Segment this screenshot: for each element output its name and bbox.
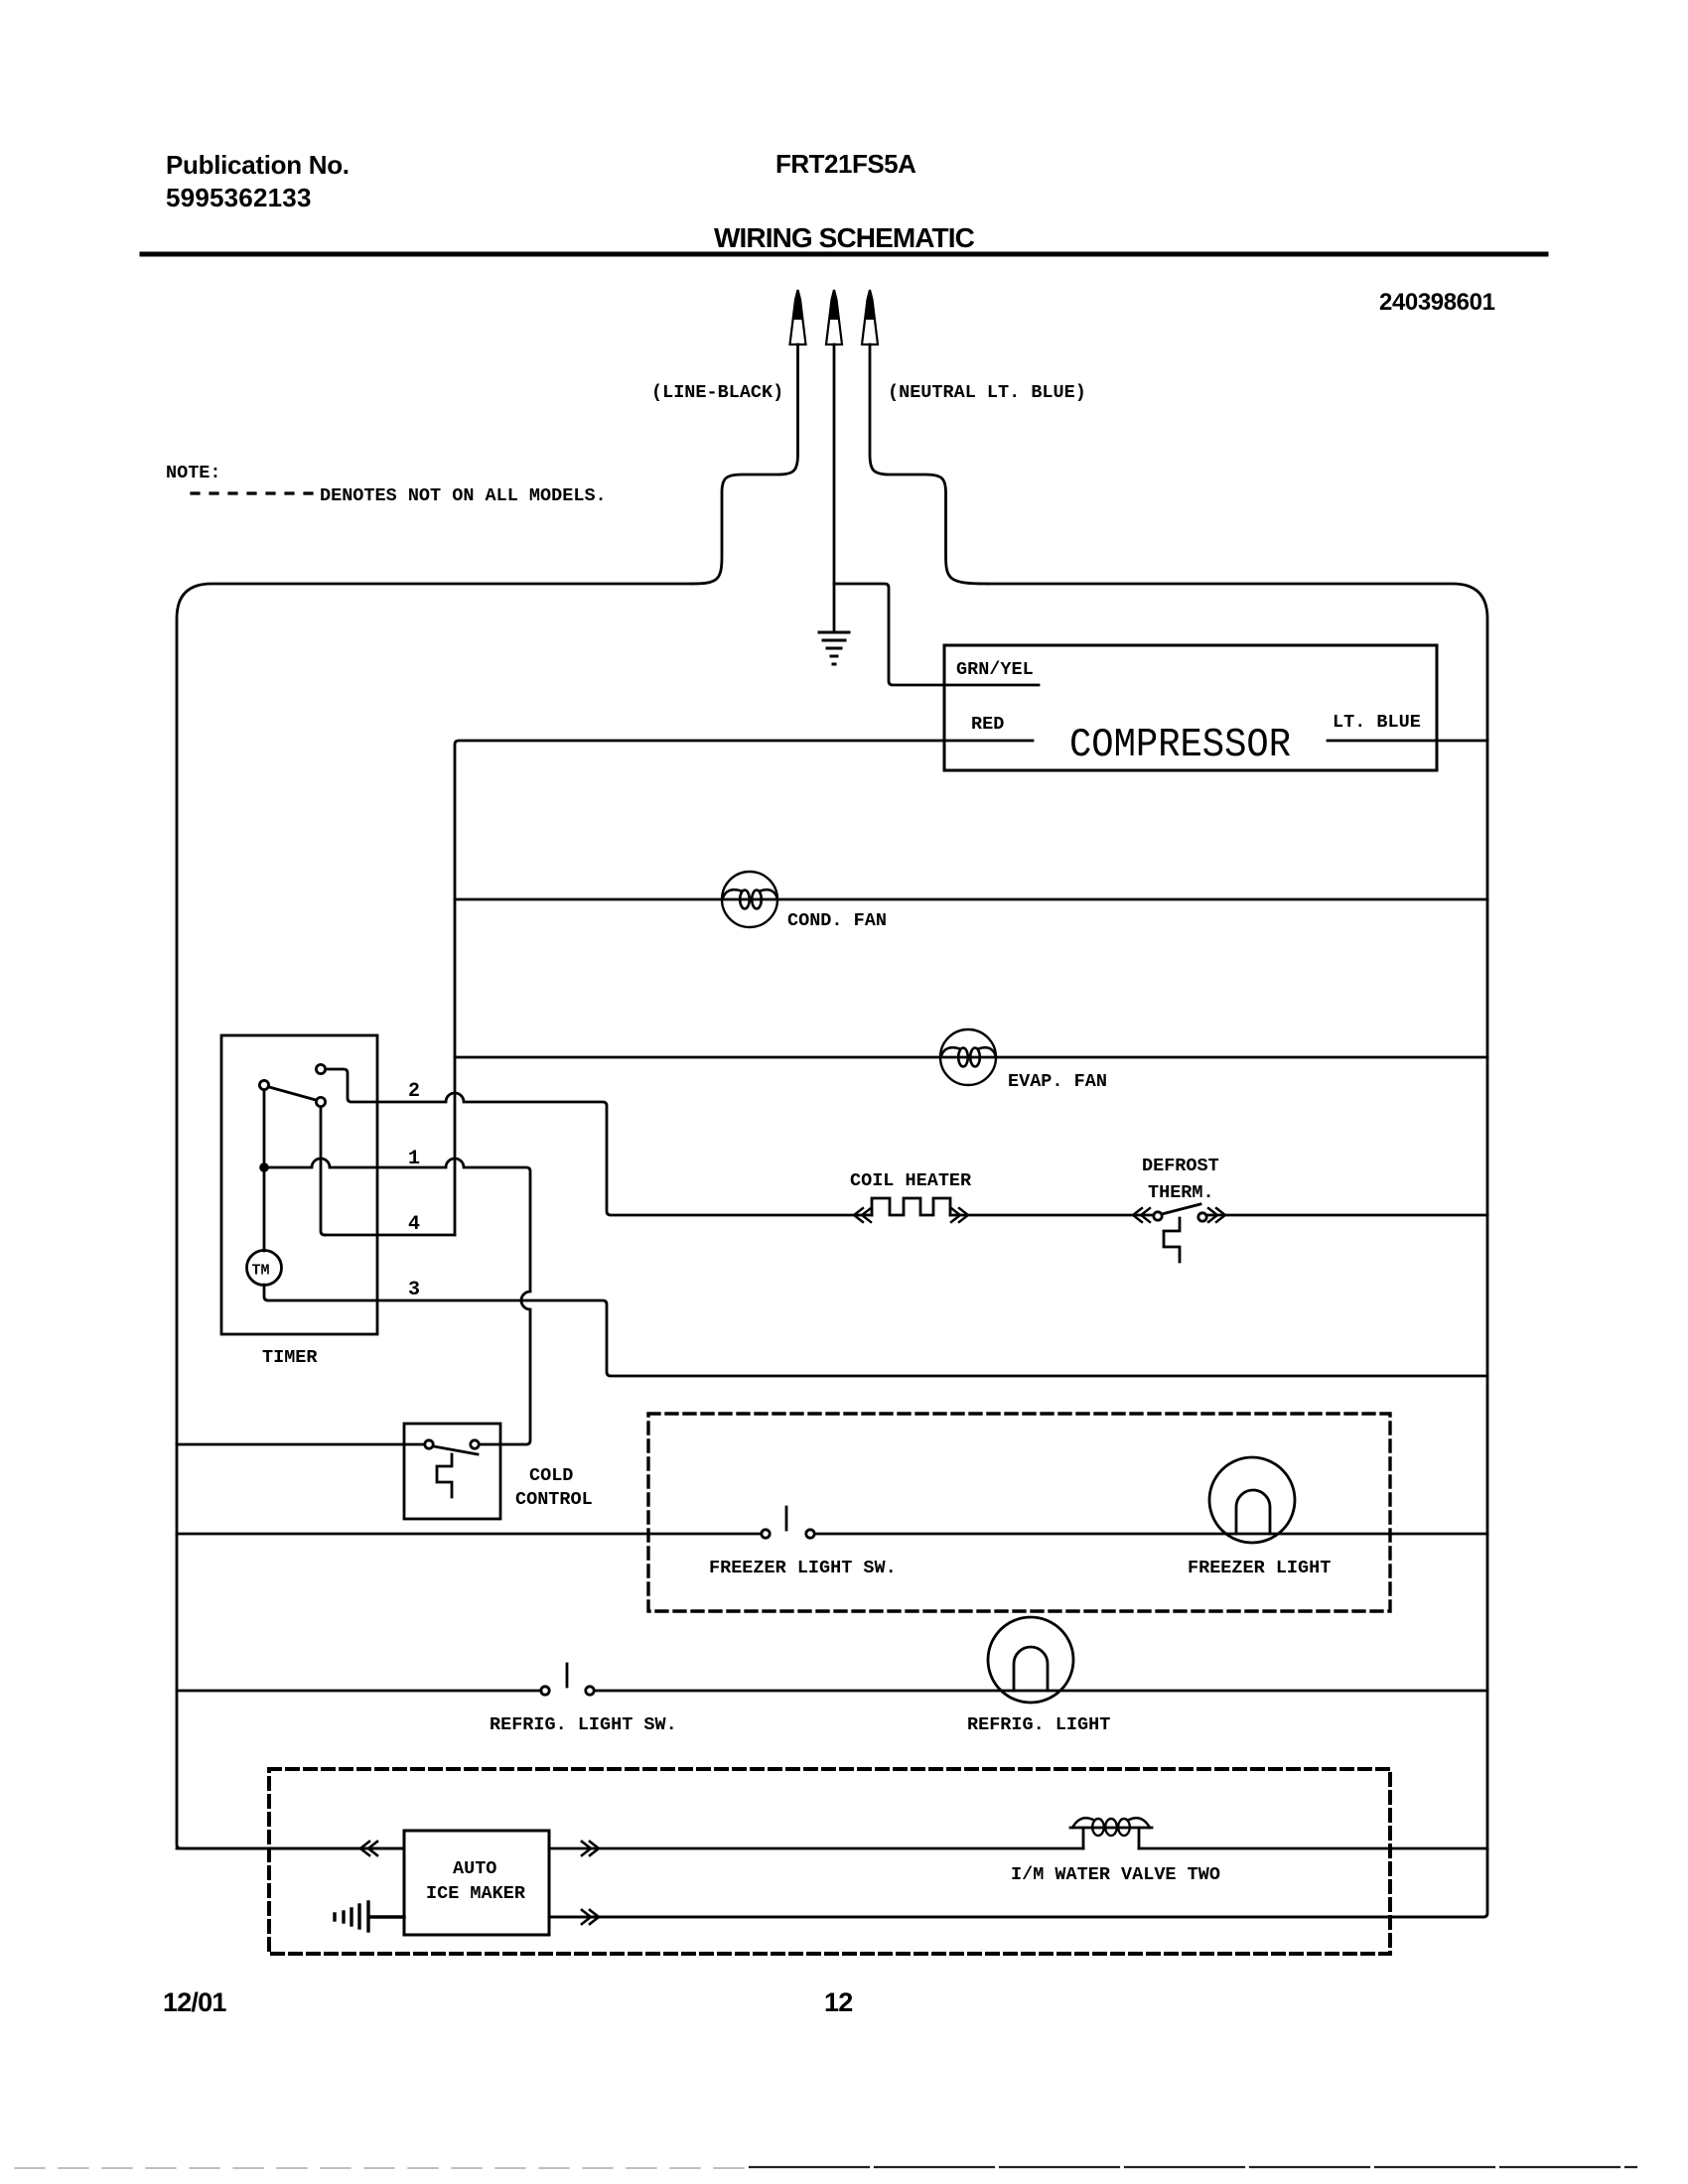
- header rule: [142, 252, 1546, 257]
- svg-text:DENOTES NOT ON ALL MODELS.: DENOTES NOT ON ALL MODELS.: [320, 485, 607, 506]
- wire: line-black shaft: [692, 344, 798, 584]
- ice maker ground symbol: [335, 1902, 404, 1931]
- svg-text:DEFROST: DEFROST: [1142, 1156, 1219, 1176]
- svg-text:TM: TM: [252, 1263, 270, 1280]
- wire: top edge middle segment to ground node: [834, 584, 1039, 685]
- svg-text:COLD: COLD: [529, 1465, 573, 1486]
- connector arrows right of defrost therm: [1208, 1208, 1225, 1222]
- scan artifact line bottom: [15, 2167, 750, 2169]
- timer pivot terminal: [259, 1080, 268, 1089]
- timer contact terminal lower: [316, 1097, 325, 1106]
- refrig light switch left terminal: [541, 1687, 549, 1695]
- svg-text:REFRIG. LIGHT: REFRIG. LIGHT: [967, 1714, 1110, 1735]
- freezer light switch right terminal: [806, 1530, 814, 1538]
- refrig light switch actuator: [566, 1664, 569, 1687]
- wire: freezer light row right: [815, 1533, 1487, 1536]
- wire: refrig light row left: [177, 1690, 541, 1693]
- arrow neutral terminal: [862, 290, 878, 344]
- arrow ground lead terminal: [826, 290, 842, 344]
- svg-text:RED: RED: [971, 714, 1004, 735]
- svg-text:THERM.: THERM.: [1148, 1182, 1214, 1203]
- svg-text:FREEZER LIGHT SW.: FREEZER LIGHT SW.: [709, 1558, 897, 1578]
- defrost therm blade: [1162, 1204, 1200, 1214]
- defrost therm left terminal: [1154, 1212, 1162, 1220]
- svg-text:TIMER: TIMER: [262, 1347, 318, 1368]
- wire: lt. blue lead: [1328, 740, 1487, 743]
- svg-text:WIRING SCHEMATIC: WIRING SCHEMATIC: [714, 222, 975, 253]
- svg-text:GRN/YEL: GRN/YEL: [956, 659, 1034, 680]
- svg-text:(LINE-BLACK): (LINE-BLACK): [651, 382, 783, 403]
- wire: timer pivot junction to cold control: [269, 1159, 530, 1444]
- wire: ice maker lower output: [549, 1916, 1483, 1919]
- motor: condenser fan: [722, 872, 777, 927]
- svg-text:I/M WATER VALVE TWO: I/M WATER VALVE TWO: [1011, 1864, 1220, 1885]
- svg-text:5995362133: 5995362133: [166, 183, 312, 212]
- cold control box: [404, 1424, 500, 1519]
- wire: refrig light row right: [595, 1690, 1487, 1693]
- wire: neutral shaft: [870, 344, 987, 584]
- svg-text:3: 3: [408, 1279, 420, 1301]
- svg-text:NOTE:: NOTE:: [166, 463, 221, 483]
- wire: timer motor to lower distribution row: [264, 1285, 1487, 1376]
- arrow line-black terminal: [790, 290, 806, 344]
- svg-text:2: 2: [408, 1080, 420, 1103]
- timer switch blade: [269, 1087, 316, 1100]
- defrost therm sensing element: [1164, 1218, 1180, 1262]
- cold control right terminal: [471, 1440, 479, 1448]
- wire: feed to auto ice maker: [177, 1847, 404, 1850]
- i/m water valve coil: [1070, 1818, 1152, 1848]
- wire: ground lead shaft: [833, 344, 836, 631]
- cold control sensing element: [437, 1454, 452, 1497]
- wire: main loop top-right edge and right side: [549, 584, 1487, 1917]
- connector arrows into ice maker: [360, 1842, 377, 1855]
- svg-text:COIL HEATER: COIL HEATER: [850, 1170, 972, 1191]
- wire: evaporator fan row: [455, 1056, 1487, 1059]
- cold control left terminal: [425, 1440, 433, 1448]
- svg-text:AUTO: AUTO: [453, 1858, 496, 1879]
- wire: cold control feed from left edge: [177, 1443, 424, 1446]
- wire: freezer light row left: [177, 1533, 762, 1536]
- wire: red lead and left bus: [455, 741, 1033, 1235]
- connector arrows left of defrost therm: [1133, 1208, 1150, 1222]
- svg-text:(NEUTRAL LT. BLUE): (NEUTRAL LT. BLUE): [888, 382, 1086, 403]
- timer contact 2 terminal: [316, 1064, 325, 1073]
- svg-text:240398601: 240398601: [1379, 289, 1495, 316]
- svg-text:12/01: 12/01: [163, 1987, 226, 2017]
- wire: defrost therm to right edge: [1207, 1214, 1487, 1217]
- svg-text:12: 12: [824, 1987, 852, 2017]
- motor: evaporator fan: [940, 1029, 996, 1085]
- wire: wire 4 row: [325, 1234, 455, 1237]
- connector arrows left of coil heater: [854, 1208, 871, 1222]
- timer box: [221, 1035, 377, 1334]
- svg-text:REFRIG. LIGHT SW.: REFRIG. LIGHT SW.: [490, 1714, 677, 1735]
- auto ice maker box: [404, 1831, 549, 1935]
- wire: coil heater to defrost thermostat: [950, 1214, 1152, 1217]
- junction dot timer: [259, 1162, 269, 1172]
- freezer compartment dashed box: [648, 1414, 1390, 1611]
- svg-text:ICE MAKER: ICE MAKER: [426, 1883, 526, 1904]
- wire: valve to right edge: [1139, 1847, 1487, 1850]
- freezer light bulb: [1209, 1457, 1295, 1543]
- compressor box: [944, 645, 1437, 770]
- connector arrows upper output: [582, 1842, 599, 1855]
- svg-text:Publication No.: Publication No.: [166, 150, 350, 180]
- wire: timer contact 2 to coil heater row: [327, 1069, 872, 1215]
- timer motor TM: [247, 1251, 282, 1286]
- svg-text:EVAP. FAN: EVAP. FAN: [1008, 1071, 1107, 1092]
- cold control blade: [434, 1446, 478, 1454]
- wire: main loop left side and top-left edge: [177, 584, 692, 1848]
- svg-text:4: 4: [408, 1213, 420, 1236]
- wire: terminal 4 stem: [321, 1107, 325, 1235]
- svg-text:CONTROL: CONTROL: [515, 1489, 593, 1510]
- ground symbol: [819, 632, 849, 664]
- refrig light bulb: [988, 1617, 1073, 1703]
- defrost therm right terminal: [1198, 1213, 1206, 1221]
- svg-text:COMPRESSOR: COMPRESSOR: [1069, 723, 1291, 768]
- svg-text:FRT21FS5A: FRT21FS5A: [775, 149, 916, 179]
- refrig light switch right terminal: [586, 1687, 594, 1695]
- svg-text:COND. FAN: COND. FAN: [787, 910, 887, 931]
- svg-text:FREEZER LIGHT: FREEZER LIGHT: [1188, 1558, 1331, 1578]
- ice maker dashed box: [269, 1769, 1390, 1954]
- wire: condenser fan row: [455, 898, 1487, 901]
- connector arrows right of coil heater: [951, 1208, 968, 1222]
- coil heater element: [872, 1198, 950, 1215]
- freezer light switch actuator: [785, 1507, 788, 1530]
- connector arrows lower output: [582, 1910, 599, 1924]
- freezer light switch left terminal: [762, 1530, 770, 1538]
- svg-text:LT. BLUE: LT. BLUE: [1333, 712, 1421, 733]
- wire: timer pivot stem: [263, 1090, 266, 1251]
- wire: ice maker upper output to valve: [549, 1847, 1083, 1850]
- legend dashed sample: [192, 491, 314, 494]
